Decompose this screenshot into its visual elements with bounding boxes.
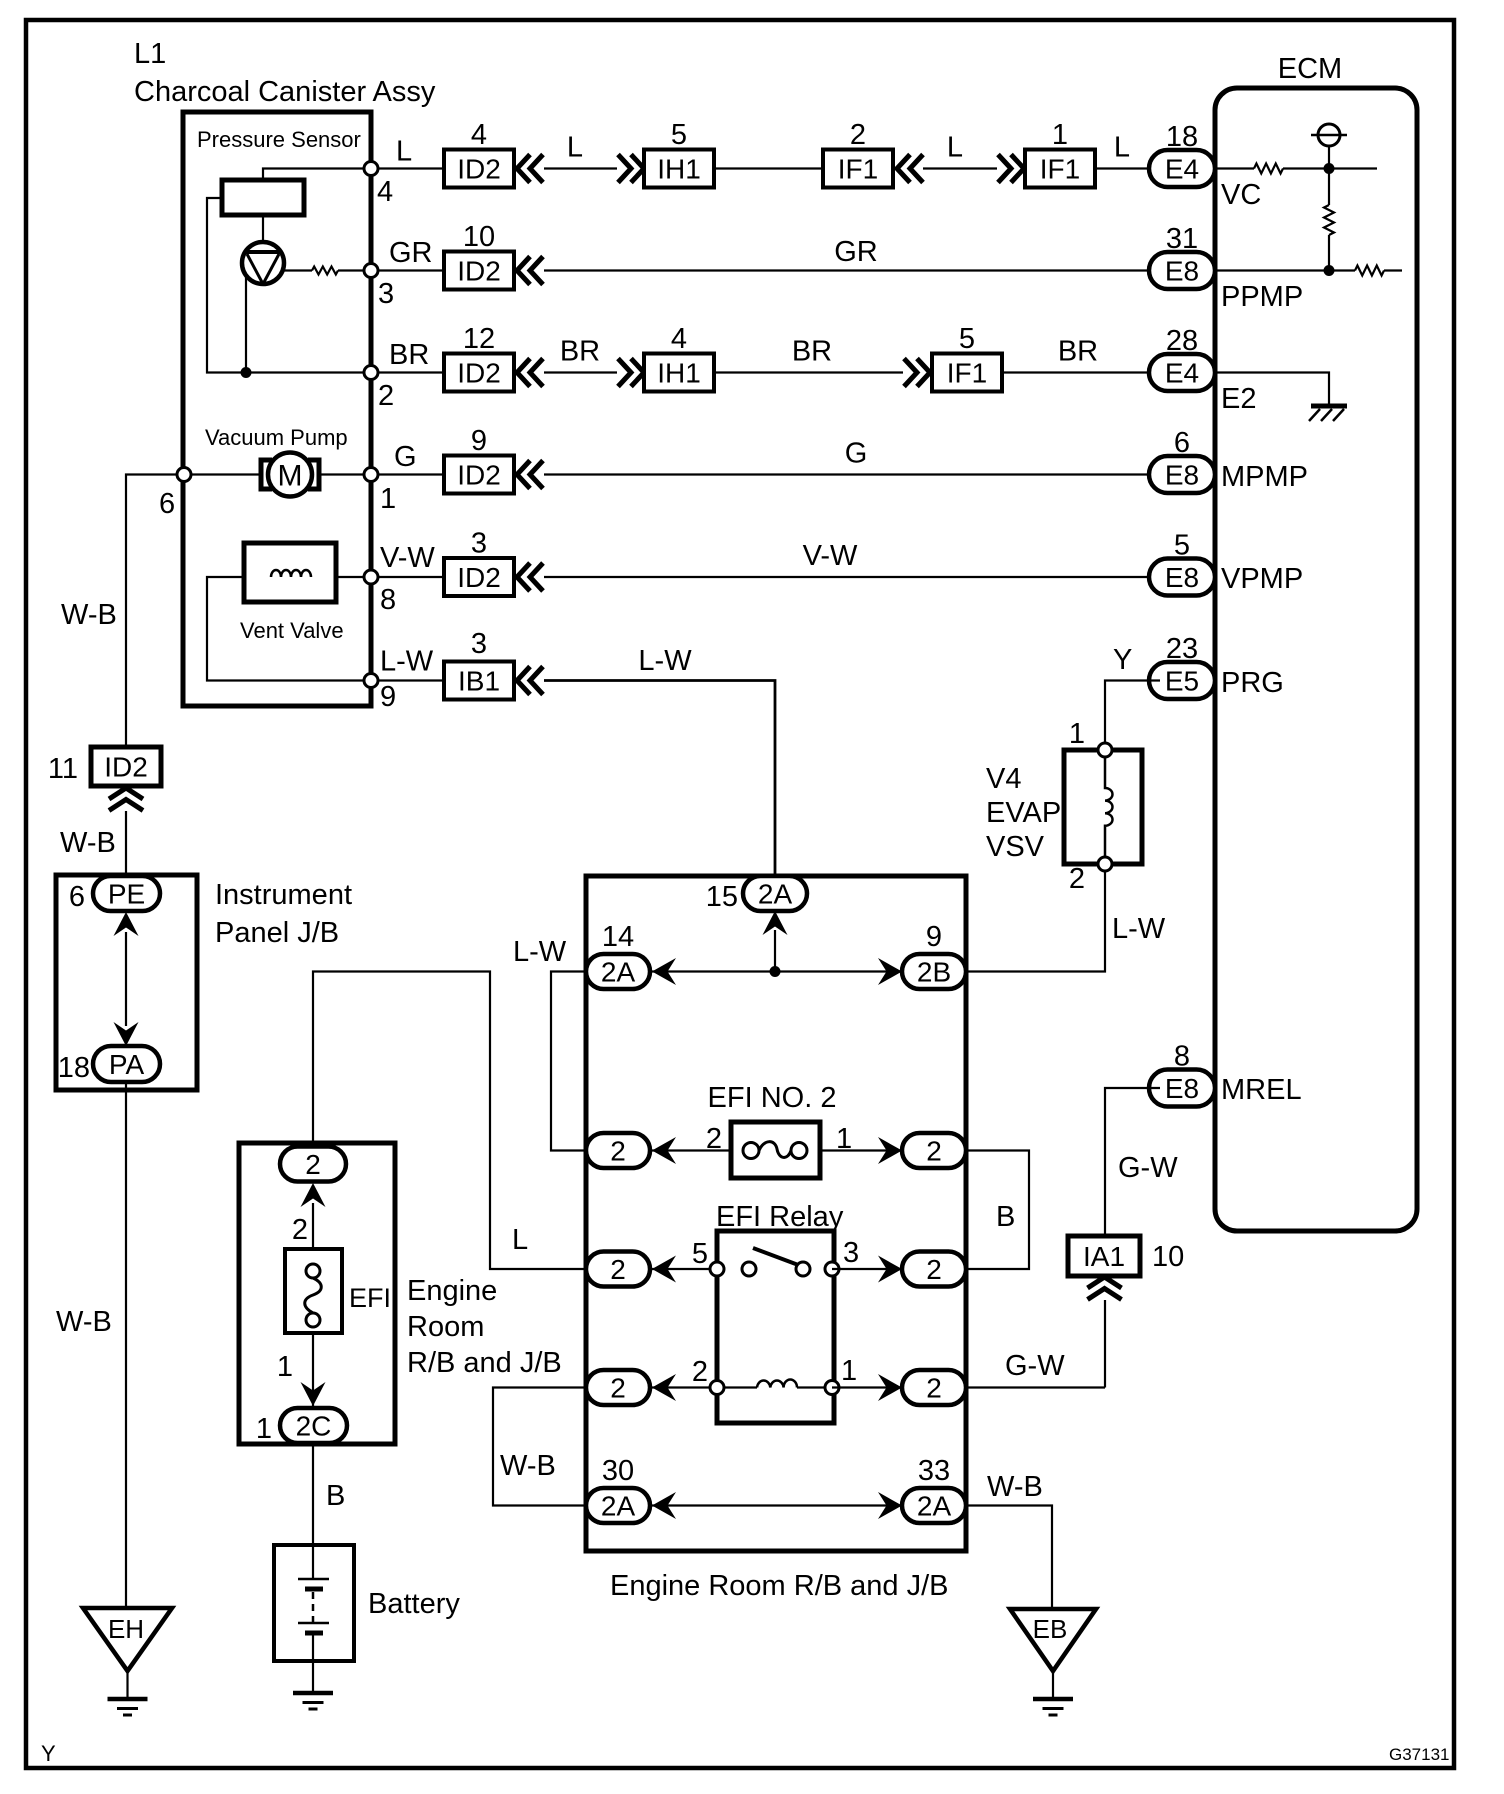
svg-text:E8: E8 [1165,562,1199,593]
fuse element [759,1142,791,1158]
instrument panel J/B box [56,875,197,1090]
connector oval 2 coil-right [902,1370,966,1405]
svg-text:IH1: IH1 [657,358,701,389]
charcoal canister assy box L1 [183,112,371,706]
svg-text:2: 2 [926,1373,942,1404]
junction dot row A [770,966,781,977]
svg-text:9: 9 [380,681,396,713]
connector IB1 row6 [444,662,514,700]
svg-text:G-W: G-W [1118,1152,1178,1184]
wire sensor to pump [262,215,264,242]
svg-text:15: 15 [706,881,738,913]
svg-text:2C: 2C [296,1411,332,1442]
svg-text:ECM: ECM [1278,53,1342,85]
battery plate short top [305,1587,323,1592]
junction dot VC [1324,163,1335,174]
chevrons after ID2 row4 [517,461,530,489]
wire 2C to battery [312,1443,314,1545]
svg-text:E4: E4 [1165,154,1199,185]
solid arrow into 2 coil-left [652,1374,676,1401]
ECM terminal E4 pin28 [1149,354,1215,391]
solid arrow into 2B [878,958,902,985]
wire E2 internal [1215,373,1329,405]
chevrons after IB1 [517,667,530,695]
connector oval 2 EFI-top [280,1147,346,1182]
connector oval 2A pin15 [743,876,807,911]
chevrons before IH1 row1 [618,155,631,183]
wire pin1 to ID2 [378,473,444,475]
resistor in sensor [312,267,338,275]
node pin 8 [364,570,378,584]
solid arrow into 2A-30 [652,1492,676,1519]
connector oval 2A pin14 [586,954,650,989]
connector oval 2C [280,1408,347,1443]
solid arrow into 2 coil-right [878,1374,902,1401]
connector oval 2 switch-left [586,1252,650,1287]
svg-text:W-B: W-B [61,599,117,631]
svg-text:E8: E8 [1165,1073,1199,1104]
VSV pin 2 node [1098,857,1112,871]
svg-text:2: 2 [305,1149,321,1180]
resistor PPMP [1355,266,1384,276]
svg-text:G: G [845,438,868,470]
B loop wire fuse to relay [966,1151,1029,1270]
wire EH to ground [126,1671,128,1697]
svg-text:EH: EH [108,1614,144,1644]
svg-text:3: 3 [471,528,487,560]
svg-text:5: 5 [1174,530,1190,562]
ECM terminal E4 pin18 [1149,150,1215,187]
motor M symbol [261,460,272,489]
ground in ECM [1311,404,1347,409]
svg-text:Y: Y [1113,644,1132,676]
svg-text:1: 1 [256,1413,272,1445]
relay pin 5 node [710,1262,724,1276]
svg-text:4: 4 [377,176,393,208]
junction dot PPMP [1324,265,1335,276]
svg-text:PRG: PRG [1221,667,1284,699]
wire sensor left to pin 2 row [207,198,368,373]
wire PE to PA [125,932,127,1026]
svg-text:ID2: ID2 [457,358,501,389]
svg-text:2A: 2A [601,957,636,988]
wire 2A-33 to EB [966,1506,1052,1610]
solid arrow into 2A-33 [878,1492,902,1519]
svg-text:E5: E5 [1165,666,1199,697]
fuse contact left [743,1143,759,1159]
chevrons before IH1 row3 [618,359,631,387]
svg-text:12: 12 [463,323,495,355]
engine room R/B J/B box [586,876,966,1551]
svg-text:23: 23 [1166,633,1198,665]
svg-text:IF1: IF1 [947,358,987,389]
EFI relay box [717,1231,834,1423]
vent valve box [244,543,336,602]
svg-text:14: 14 [602,921,634,953]
svg-text:9: 9 [471,425,487,457]
svg-text:18: 18 [58,1052,90,1084]
wire 2A-30 to 2A-33 [586,1504,966,1506]
connector oval 2 switch-right [902,1252,966,1287]
chevrons after ID2 row2 [517,257,530,285]
svg-text:2: 2 [850,119,866,151]
wire IA1 to G-W wire [1104,1300,1106,1388]
svg-text:E8: E8 [1165,256,1199,287]
connector ID2 row3 [444,354,514,392]
svg-text:PE: PE [108,879,145,910]
L-W loop wire 2A-14 to fuse row [551,972,586,1151]
connector IF1-2 row1 [823,150,893,188]
solid up arrow below PE [114,912,139,936]
node pin 6 [177,468,191,482]
wire into battery [312,1545,314,1579]
svg-text:G-W: G-W [1005,1350,1065,1382]
connector IA1 [1068,1236,1140,1276]
wire source to VC node [1328,146,1330,169]
connector oval 2B pin9 [902,954,966,989]
svg-text:30: 30 [602,1455,634,1487]
wire relay pin2 to coil [717,1386,757,1388]
svg-text:11: 11 [48,753,78,785]
wire pin9 to IB1 [378,679,444,681]
svg-text:6: 6 [159,488,175,520]
svg-text:2B: 2B [917,957,951,988]
svg-text:W-B: W-B [500,1450,556,1482]
svg-text:L1: L1 [134,38,166,70]
wire switch row right [832,1268,966,1270]
connector oval 2A pin33 [902,1488,966,1523]
svg-text:MREL: MREL [1221,1074,1302,1106]
svg-text:L-W: L-W [1112,913,1166,945]
wire resistor to pin 3 [338,269,368,271]
battery dashed link [312,1592,315,1622]
svg-text:EFI Relay: EFI Relay [716,1201,844,1233]
wire IF1-1 to E4 [1094,167,1160,169]
svg-text:1: 1 [841,1355,857,1387]
wire MREL to IA1 [1105,1088,1160,1236]
wire ID2 to E8 row4 [544,473,1160,475]
svg-text:2: 2 [610,1136,626,1167]
relay pin 1 node [825,1381,839,1395]
svg-text:1: 1 [277,1351,293,1383]
wire VC internal [1215,167,1254,169]
solid arrow into 2 switch-left [652,1256,676,1283]
svg-text:8: 8 [1174,1041,1190,1073]
wire ID2 to E8 row2 [544,269,1160,271]
svg-text:10: 10 [463,221,495,253]
svg-text:GR: GR [834,236,878,268]
connector ID2 row5 [444,558,514,596]
solid up arrow below 2 [301,1183,326,1207]
power source circle [1318,124,1340,146]
svg-text:2: 2 [610,1373,626,1404]
fuse contact right [791,1143,807,1159]
svg-text:IF1: IF1 [838,154,878,185]
svg-text:G: G [394,441,417,473]
svg-text:G37131: G37131 [1389,1745,1450,1764]
svg-text:1: 1 [1069,718,1085,750]
svg-text:4: 4 [671,323,687,355]
svg-text:1: 1 [1052,119,1068,151]
svg-text:VPMP: VPMP [1221,563,1303,595]
wire pin2 to ID2 [378,371,444,373]
svg-text:E4: E4 [1165,358,1199,389]
node pin 2 [364,366,378,380]
solid arrow into 2 fuse-right [878,1137,902,1164]
svg-text:Room: Room [407,1311,484,1343]
svg-text:2: 2 [926,1254,942,1285]
svg-text:PPMP: PPMP [1221,281,1303,313]
ECM terminal E8 pin6 [1149,456,1215,493]
svg-text:2: 2 [692,1356,708,1388]
svg-text:Engine Room R/B and J/B: Engine Room R/B and J/B [610,1570,949,1602]
solid arrow into 2 switch-right [878,1256,902,1283]
svg-text:GR: GR [389,237,433,269]
node pin 3 [364,264,378,278]
L wire switch-left to EFI box [313,972,586,1270]
relay coil [757,1380,797,1388]
wire vent valve to pin 8 [336,576,368,578]
wire ID2 to E8 row5 [544,576,1160,578]
svg-text:VSV: VSV [986,831,1045,863]
battery plate long bottom [298,1622,329,1625]
svg-text:V-W: V-W [803,540,858,572]
chevrons before IF1 row3 [904,359,917,387]
ECM terminal E8 pin8 MREL [1149,1070,1215,1107]
wire pin6 to ID2-11 [126,475,177,748]
svg-text:10: 10 [1152,1241,1184,1273]
svg-text:9: 9 [926,921,942,953]
battery plate long top [298,1578,329,1581]
svg-text:5: 5 [671,119,687,151]
ground triangle EB [1010,1609,1096,1671]
wire switch row left [586,1268,717,1270]
wire pin4 to ID2 [378,167,444,169]
connector IF1 row3 [932,354,1002,392]
svg-text:3: 3 [378,278,394,310]
pressure sensor element [222,180,304,215]
svg-text:M: M [278,460,303,493]
svg-text:2: 2 [706,1123,722,1155]
EFI fuse contact bottom [306,1313,320,1327]
svg-text:2: 2 [1069,863,1085,895]
svg-text:Instrument: Instrument [215,879,352,911]
wire battery to ground [312,1633,314,1693]
svg-text:2: 2 [926,1136,942,1167]
wire pin8 to ID2 [378,576,444,578]
wire EB to ground [1052,1671,1054,1697]
relay pin 3 node [825,1262,839,1276]
wire E5 to VSV pin1 [1105,681,1160,751]
ECM terminal E8 pin31 [1149,252,1215,289]
solid arrow into 2 fuse-left [652,1137,676,1164]
svg-text:2A: 2A [601,1491,636,1522]
wire PPMP internal [1215,269,1355,271]
EFI NO.2 fuse box [731,1122,820,1178]
svg-text:L: L [567,132,583,164]
svg-text:IF1: IF1 [1040,154,1080,185]
chevrons after ID2 row5 [517,563,530,591]
svg-text:5: 5 [692,1238,708,1270]
pressure pump symbol [242,242,284,284]
vent valve coil [271,570,311,577]
svg-text:2A: 2A [758,879,793,910]
node pin 1 [364,468,378,482]
svg-text:2A: 2A [917,1491,952,1522]
svg-text:BR: BR [560,336,600,368]
svg-text:Battery: Battery [368,1588,460,1620]
svg-text:E8: E8 [1165,460,1199,491]
connector ID2 row4 [444,456,514,494]
svg-text:V-W: V-W [380,542,435,574]
wire sensor top to pin 4 [263,169,368,181]
svg-text:B: B [996,1201,1015,1233]
svg-text:IB1: IB1 [458,666,500,697]
wire G-W from relay [966,1386,1105,1388]
svg-text:1: 1 [380,483,396,515]
svg-text:18: 18 [1166,121,1198,153]
wire coil row left [586,1386,717,1388]
svg-text:VC: VC [1221,179,1261,211]
solid down arrow to 2C [301,1382,326,1406]
svg-text:28: 28 [1166,325,1198,357]
resistor VC [1254,164,1283,174]
connector ID2 row2 [444,252,514,290]
wire coil row right [832,1386,966,1388]
wire PA to EH [125,1082,127,1608]
svg-text:ID2: ID2 [104,752,148,783]
wire pin 6 to motor [184,473,262,475]
wire arrow to dot [774,930,776,972]
wire ID2 to IH1 row1 [544,167,617,169]
wire coil to relay pin1 [797,1386,832,1388]
svg-text:EFI: EFI [349,1283,391,1313]
wire IH1 to IF1 row3 [714,371,903,373]
connector IH1 row1 [644,150,714,188]
svg-text:Panel J/B: Panel J/B [215,917,339,949]
ECM box [1215,88,1417,1231]
wire ID2-11 to PE [125,811,127,880]
svg-text:L-W: L-W [380,646,434,678]
wire IH1 to IF1 row1 [714,167,824,169]
wire arrow to fuse [312,1203,314,1249]
svg-text:6: 6 [1174,427,1190,459]
EB ground [1033,1697,1073,1702]
wire PPMP internal 2 [1384,269,1402,271]
svg-text:5: 5 [959,323,975,355]
svg-text:ID2: ID2 [457,256,501,287]
svg-text:Y: Y [41,1741,56,1766]
EFI fuse element [305,1278,322,1313]
svg-text:L-W: L-W [513,936,567,968]
chevrons below ID2-11 [109,788,143,799]
vertical resistor [1324,205,1334,235]
svg-text:3: 3 [843,1237,859,1269]
svg-text:L: L [947,132,963,164]
wire pump to resistor [283,269,312,271]
connector oval 2 fuse-right [902,1133,966,1168]
W-B loop wire coil to 2A-30 [493,1388,586,1506]
svg-text:E2: E2 [1221,383,1256,415]
svg-text:W-B: W-B [987,1471,1043,1503]
svg-text:B: B [326,1480,345,1512]
wire ID2 to IH1 row3 [544,371,617,373]
connector IF1-1 row1 [1025,150,1095,188]
solid up arrow to 2A-15 [763,911,788,935]
node pin 4 [364,162,378,176]
wire motor to pin 1 [318,473,368,475]
chevrons after IF1-2 [897,155,910,183]
wire VSV pin2 to 2B [966,871,1105,972]
svg-text:W-B: W-B [60,827,116,859]
wire fuse to 2C [312,1333,314,1410]
svg-text:PA: PA [109,1049,145,1080]
solid arrow into 2A-14 [652,958,676,985]
wire IF1-2 to IF1-1 [923,167,997,169]
wire pin3 to ID2 [378,269,444,271]
ECM terminal E5 pin23 [1149,662,1215,699]
chevrons after ID2 row3 [517,359,530,387]
svg-text:2: 2 [378,380,394,412]
wire IB1 to engine room 2A-15 [544,681,775,881]
EH ground [108,1697,148,1702]
svg-text:V4: V4 [986,763,1021,795]
battery ground [293,1691,333,1696]
EFI fuse box [285,1249,342,1333]
svg-text:EFI NO. 2: EFI NO. 2 [708,1082,837,1114]
svg-text:ID2: ID2 [457,154,501,185]
chevrons before IF1-1 [998,155,1011,183]
svg-text:BR: BR [389,339,429,371]
svg-text:R/B and J/B: R/B and J/B [407,1347,562,1379]
svg-text:33: 33 [918,1455,950,1487]
svg-text:EVAP: EVAP [986,797,1061,829]
wire vert resistor to PPMP [1328,235,1330,271]
ECM terminal E8 pin5 [1149,559,1215,596]
svg-text:L: L [512,1224,528,1256]
wire vent valve left to pin 9 [207,577,368,681]
ground triangle EH [83,1608,172,1671]
connector oval 2A pin30 [586,1488,650,1523]
svg-text:ID2: ID2 [457,460,501,491]
svg-text:Charcoal Canister Assy: Charcoal Canister Assy [134,76,436,108]
svg-text:3: 3 [471,628,487,660]
node pin 9 [364,674,378,688]
svg-text:BR: BR [1058,336,1098,368]
connector ID2 pin11 [91,747,161,786]
connector oval 2 fuse-left [586,1133,650,1168]
svg-text:31: 31 [1166,223,1198,255]
relay pin 2 node [710,1381,724,1395]
svg-text:EB: EB [1033,1614,1068,1644]
wire fuse to 2 right [820,1149,966,1151]
svg-text:IA1: IA1 [1083,1241,1125,1272]
svg-text:2: 2 [292,1214,308,1246]
relay switch contact right [796,1262,810,1276]
wire fuse row left [586,1149,731,1151]
EFI fuse contact top [306,1264,320,1278]
svg-text:L: L [396,136,412,168]
junction dot pump-bottom / pin2 wire [241,367,252,378]
svg-text:MPMP: MPMP [1221,461,1308,493]
svg-text:Vacuum Pump: Vacuum Pump [205,425,348,450]
svg-text:8: 8 [380,584,396,616]
connector IH1 row3 [644,354,714,392]
engine room EFI box [239,1143,395,1444]
svg-text:Vent Valve: Vent Valve [240,618,344,643]
svg-text:2: 2 [610,1254,626,1285]
relay switch blade [753,1248,801,1266]
